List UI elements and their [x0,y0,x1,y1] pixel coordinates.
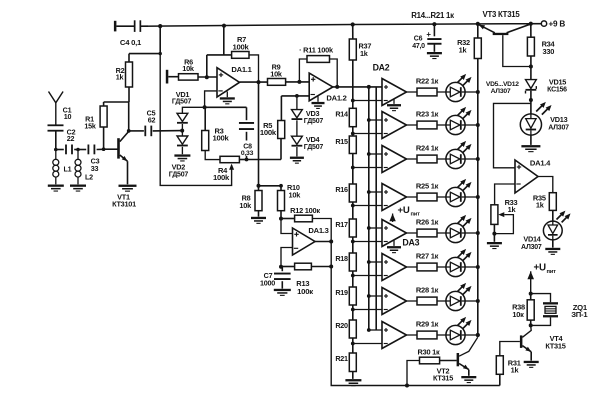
label R19 [335,288,348,297]
transistor VT2 collector [459,337,478,356]
resistor R26 [417,229,437,237]
label R34 330 [542,39,556,56]
wire bus to comparator 3 plus [369,153,382,155]
resistor R2 [126,62,133,87]
label VT2 KT315 [433,366,453,382]
label R17 [335,220,348,229]
svg-text:330: 330 [543,47,555,56]
wire R12 left [281,218,295,220]
node zener bottom [529,98,533,102]
node bus tap 6 [367,260,371,264]
label R31 1k [508,359,521,375]
ground DA2 V- [387,99,401,111]
capacitor C1 [48,124,64,131]
node collector/C5 [127,129,131,133]
LED VD5 arrows [457,74,472,86]
svg-text:КТ3101: КТ3101 [112,200,136,209]
DA1.3 minus sign [294,247,298,249]
label +Upit middle [398,205,421,217]
svg-text:10k: 10k [182,64,195,73]
node R2 top tee [159,52,162,55]
svg-text:+U: +U [534,263,546,274]
svg-text:R22 1к: R22 1к [416,76,439,85]
wire R25-LED [437,196,446,198]
resistor R22 [417,88,437,96]
resistor R28 [417,297,437,305]
DA1.2 minus sign [311,94,315,96]
node R9/R11 [297,80,301,84]
label VD1 GD507 [172,90,192,106]
wire +9V top rail [140,24,531,27]
label C3 [91,156,100,173]
label DA3 [402,237,419,247]
wire bus to comparator 4 plus [369,191,382,193]
svg-text:пит: пит [411,211,421,217]
resistor R18 [349,253,356,271]
comparator 7 minus sign [384,309,388,311]
svg-text:15k: 15k [84,122,95,131]
node C2/L2/C3 [76,148,80,152]
wire LED-rail [465,196,478,198]
svg-text:VD15: VD15 [549,77,566,86]
node bus tap 7 [367,294,371,298]
ground under R33 [487,242,502,249]
svg-text:R20: R20 [335,321,348,330]
transistor VT3 base bar [493,33,509,35]
DA1.4 plus sign [517,165,521,169]
node rail-C6 junction [432,22,436,26]
svg-text:1k: 1k [116,73,124,82]
svg-text:10k: 10k [289,190,302,199]
wire R18-R19 [352,271,354,287]
+U arrow above DA3 [389,214,395,223]
DA1.2 plus sign [311,77,315,81]
wire tap4 to comparator minus [353,205,382,207]
resistor R19 [349,287,356,305]
comparator DA2.2 [382,112,407,139]
node plus input/R7 [205,75,209,79]
zener VD15 [526,80,537,94]
wire LED-rail [465,158,478,160]
svg-text:R30 1к: R30 1к [418,347,440,356]
LED VD13 arrows [536,102,551,115]
wire R17-R18 [352,237,354,253]
svg-text:КС156: КС156 [547,87,567,94]
comparator DA3.3 [382,288,407,315]
wire rail-C6 [433,24,435,36]
label R20 [335,321,348,330]
svg-text:DA1.4: DA1.4 [530,158,551,167]
svg-text:1k: 1k [508,205,517,214]
wire LED-rail [465,124,478,126]
wire to R5 [280,96,282,121]
node +U/R38/ZQ1 [529,292,533,296]
comparator 8 plus sign [384,328,388,332]
label VD5...VD12 AL307 [486,81,519,95]
capacitor C7 [274,273,291,280]
transistor VT4 collector [522,325,531,337]
comparator 6 minus sign [384,275,388,277]
terminal to R6 [166,70,169,84]
wire tap8 to comparator minus [353,343,382,345]
transistor VT1 base bar [117,138,120,158]
R4 wiper arrowhead [229,164,234,170]
label R14...R21 1k [411,11,454,20]
node ladder tap 4 [351,204,355,208]
wire VD14-ground [552,240,554,248]
resistor R4 (trimmer) [220,156,239,162]
label R22 1k [416,76,439,85]
ground under VT1 [119,185,137,192]
node LED rail 1 [476,90,480,94]
svg-text:VD14: VD14 [523,235,541,244]
capacitor C6 [427,38,441,45]
svg-text:VD3: VD3 [306,109,320,118]
node collector/R38/ZQ1 [529,323,533,327]
node LED rail 2 [476,123,480,127]
node LED rail 3 [476,157,480,161]
wire C5-detector node [153,130,183,132]
comparator DA2.1 [382,79,407,106]
LED VD10 [446,257,465,276]
LED VD12 [446,325,465,344]
svg-text:100к: 100к [297,287,313,296]
wire C8 bottom [246,132,248,160]
svg-text:100k: 100k [260,128,277,137]
svg-text:КТ315: КТ315 [545,341,565,350]
wire divider-R8 [258,186,260,191]
comparator DA3.2 [382,254,407,281]
node R4/C8/R5 [245,158,249,162]
wire R26-LED [437,232,446,234]
op-amp DA1.2 [309,73,333,101]
node LED rail 5 [476,231,480,235]
svg-text:· R11 100k: · R11 100k [299,45,334,54]
svg-text:R18: R18 [335,254,348,263]
svg-text:+U: +U [398,205,410,216]
label R1 15k [84,114,95,130]
wire R15-R16 [352,154,354,185]
capacitor C6 plus [426,30,431,39]
diode VD1 [177,111,188,131]
wire C8/R5 link [247,159,282,161]
node rail-C4/R2 junction [158,24,162,28]
svg-text:C6: C6 [414,35,423,42]
wire C7 top [281,267,282,272]
transistor VT2 base bar [457,353,460,366]
label +Upit right [534,263,557,275]
wire C1-node [55,131,57,150]
wire R32-LED rail [477,59,479,336]
svg-text:VD13: VD13 [550,115,567,124]
wire R30 left [407,361,420,386]
resistor R10 [278,191,285,211]
wire bus to comparator 6 plus [369,261,382,263]
node rail-R34 junction [529,22,533,26]
node LED rail 8 [476,333,480,337]
wire comparator 6 output [407,266,418,268]
node R33 bottom [492,232,496,236]
resistor R12 [295,215,313,222]
node bus tap 4 [367,190,371,194]
wire DA1.1 output [240,81,268,83]
label L1 [64,164,72,173]
op-amp DA1.1 [217,68,240,97]
comparator 8 minus sign [384,343,388,345]
ground DA3 V- [387,240,401,253]
transistor VT1 emitter [120,155,128,184]
wire tap3 to comparator minus [353,167,382,169]
label R18 [335,254,348,263]
label R6 10k [182,57,195,73]
resistor R31 [496,356,503,375]
label VD15 KC156 [547,77,567,93]
svg-text:АЛ307: АЛ307 [521,244,542,251]
label R24 1k [416,143,439,152]
svg-text:R28 1к: R28 1к [416,285,439,294]
wire bus to comparator 8 plus [369,329,382,331]
comparator 3 plus sign [384,152,388,156]
comparator DA2.4 [382,184,407,211]
svg-text:ГД507: ГД507 [169,172,189,179]
svg-text:R26 1к: R26 1к [416,217,439,226]
resistor R37 [349,39,356,60]
label R14 [335,109,348,118]
svg-text:10k: 10k [270,70,283,79]
label R21 [335,354,348,363]
wire R8-ground [258,211,260,217]
wire LED-rail [465,91,478,93]
node output/R7 drop [257,80,261,84]
svg-text:ГД507: ГД507 [172,99,192,106]
wire rail to +9V terminal [531,23,542,25]
transistor VT4 base bar [520,335,523,348]
svg-text:1k: 1k [536,201,545,210]
label R7 100k [232,35,249,52]
node R34/VD15/base [529,65,533,69]
wire R23-LED [437,124,446,126]
wire tap5 to comparator minus [353,241,382,243]
label R38 10k [512,303,525,319]
wire second input bus [375,87,377,330]
label +9 V [549,20,566,29]
svg-text:R14: R14 [335,109,348,118]
svg-text:100k: 100k [212,133,229,142]
svg-text:62: 62 [148,115,156,124]
wire R11 right lead [330,59,338,87]
ground under VD2 [174,154,190,161]
label R30 1k [418,347,440,356]
resistor R27 [417,263,437,271]
wire R13 right [311,266,331,268]
label DA2 [373,63,390,73]
svg-text:АЛ307: АЛ307 [548,125,569,132]
LED VD12 arrows [457,317,472,329]
svg-text:+: + [426,30,431,39]
ground under L2 [70,185,86,192]
wire R21-ground [352,372,354,379]
resistor R6 [179,74,199,80]
svg-text:+9 В: +9 В [549,20,566,29]
svg-text:R23 1к: R23 1к [416,109,439,118]
wire bus to comparator 7 plus [369,295,382,297]
ground under R21 [345,379,361,386]
wire divider to R10 [259,185,282,187]
diode VD2 [177,131,188,155]
svg-text:R12 100к: R12 100к [290,206,320,215]
label DA1.4 [530,158,551,167]
DA1.3 plus sign [294,232,298,236]
capacitor C2 [65,145,73,155]
label R8 10k [239,193,252,210]
resistor R32 [474,38,481,59]
R33 wiper [494,212,513,234]
wire tap2 to comparator minus [353,133,382,135]
wire rail-R2 top [129,26,160,53]
LED VD5 [446,82,465,101]
comparator 5 minus sign [384,241,388,243]
comparator 2 plus sign [384,118,388,122]
svg-text:DA3: DA3 [402,237,419,247]
wire R14-R15 [352,127,354,136]
+U arrow right [527,271,534,293]
LED VD13 [520,114,541,135]
node rail-R7 junction [222,24,226,28]
ground under VD14 [545,248,560,255]
label DA1.1 [231,65,252,74]
wire node-C2 [56,149,64,151]
svg-text:DA1.2: DA1.2 [326,93,346,102]
svg-text:1k: 1k [360,49,369,58]
LED VD6 arrows [457,107,472,119]
wire VD13-ground [530,135,532,145]
LED VD9 arrows [457,215,472,227]
DA1.1 minus sign [218,90,222,92]
label L2 [85,172,93,181]
wire VT4 base-R31 [500,342,520,356]
wire DA1.3 plus lead [281,219,293,234]
comparator DA3.4 [382,322,407,349]
resistor R24 [417,155,437,163]
wire R7 right lead [249,55,259,82]
wire tap7 to comparator minus [353,309,382,311]
svg-text:DA1.3: DA1.3 [308,226,328,235]
resistor R8 [255,191,262,211]
node R10 top [279,184,283,188]
resistor R29 [417,331,437,339]
resistor R1 [100,106,107,127]
svg-text:VT3 КТ315: VT3 КТ315 [483,10,521,19]
op-amp DA1.4 [515,160,538,193]
wire tap6 to comparator minus [353,275,382,277]
resistor R14 [349,108,356,126]
label R33 1k [505,198,518,214]
label R23 1k [416,109,439,118]
svg-text:C4 0,1: C4 0,1 [120,38,142,47]
wire VT3 base [503,35,531,66]
resistor R35 [549,193,556,211]
wire DA1.4 output [538,177,553,193]
wire DA1.3 output [315,241,331,243]
svg-text:R21: R21 [335,354,348,363]
+9V terminal [541,21,546,26]
capacitor C5 [144,126,152,137]
wire R35-VD14 [552,210,554,221]
transistor VT2 emitter [459,364,469,376]
label R16 [335,185,348,194]
svg-text:пит: пит [547,269,557,275]
label DA1.3 [308,226,328,235]
node R10/R12/DA1.3 [279,217,283,221]
label C4 0,1 [120,38,142,47]
svg-text:R25 1к: R25 1к [416,181,439,190]
wire comparator 3 output [407,158,418,160]
svg-text:ЗП-1: ЗП-1 [571,310,588,319]
resistor R7 [232,52,249,59]
label R32 1k [457,38,470,55]
wire rail drop to R4 wiper [160,54,231,186]
wire minus node-C8 [205,107,247,120]
wire LED-rail [465,300,478,302]
wire C3-base node [97,148,104,150]
wire bus to comparator 5 plus [369,227,382,229]
comparator 6 plus sign [384,260,388,264]
comparator 1 plus sign [384,85,388,89]
wire comparator 4 output [407,196,418,198]
wire R12 right [312,219,331,242]
label C5 62 [147,108,156,124]
node output/bus [367,85,371,89]
resistor R30 [420,357,440,364]
wire R1 bottom [103,127,105,149]
resistor R9 [268,79,286,86]
label R12 100k [290,206,320,215]
resistor R20 [349,320,356,338]
wire R31 bottom [499,374,501,385]
comparator 2 minus sign [384,133,388,135]
inductor L1 [53,150,59,185]
resistor R38 [527,300,534,320]
wire R24-LED [437,158,446,160]
ground under R8 [251,217,266,224]
label R37 1k [359,41,372,58]
antenna WA1 [49,92,64,126]
ground under L1 [48,185,64,192]
svg-text:АЛ307: АЛ307 [491,88,511,95]
wire VD15 top [530,67,532,80]
label C2 [67,127,76,143]
comparator 4 plus sign [384,190,388,194]
node DA1.1 minus [203,105,207,109]
svg-text:R19: R19 [335,288,348,297]
comparator 7 plus sign [384,294,388,298]
LED VD8 [446,187,465,206]
LED VD7 [446,149,465,168]
label ZQ1 ZP-1 [571,303,588,319]
label C7 1000 [260,271,275,288]
wire terminal-C4 [116,25,134,27]
wire output drop to divider [258,82,260,186]
label VT1 KT3101 [112,192,136,208]
label R4 100k [213,166,230,182]
wire R5 bottom [280,139,282,160]
svg-text:ГД507: ГД507 [304,118,324,125]
LED VD11 arrows [457,283,472,295]
wire C6-ground [433,44,435,52]
label VT3 KT315 [483,10,521,19]
resistor R15 [349,136,356,154]
resistor R25 [417,193,437,201]
